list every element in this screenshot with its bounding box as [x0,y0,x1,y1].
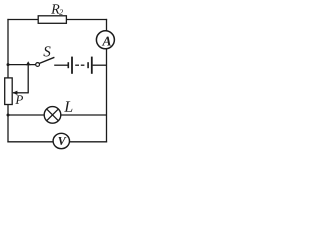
wire: battery branch left segment to switch [8,64,38,66]
label P [15,95,23,104]
wire: wiper horizontal segment [13,92,28,94]
battery cell 2 positive plate [91,57,93,74]
battery cell 2 negative plate [87,62,89,68]
label S [43,46,50,56]
battery dashed middle section [75,64,84,66]
label R2 [51,4,63,14]
junction at left wire and battery branch [7,63,10,66]
switch S [36,57,55,66]
wire: left side of loop [7,19,9,142]
voltmeter V [53,133,69,148]
wire: bottom voltmeter branch [7,141,107,143]
lamp L [44,107,61,124]
wire: switch to battery segment [54,64,68,66]
battery cell 1 positive plate [71,57,73,74]
wire: right side of loop [106,19,108,142]
wire: top side of loop [7,19,107,21]
battery cell 1 negative plate [67,62,69,68]
wire: wiper vertical segment [27,64,29,93]
rheostat P (slider resistor box) [5,78,13,105]
wiper top arrowhead at junction [26,61,31,65]
wire: battery to right side segment [93,64,107,66]
label L [64,101,72,111]
wire: lamp branch horizontal [8,114,107,116]
ammeter A [96,31,114,49]
resistor R2 [38,16,66,23]
rheostat wiper arrowhead [12,91,17,95]
junction at left wire and lamp branch [7,114,10,117]
